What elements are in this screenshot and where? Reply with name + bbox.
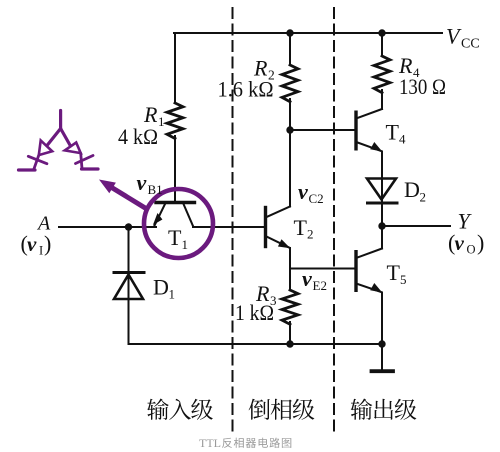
wire output Y	[382, 225, 450, 227]
annotation circle around T1	[144, 189, 213, 258]
transistor T1 base bar	[156, 201, 195, 204]
svg-text:vB1: vB1	[137, 170, 163, 197]
node R2 T2 collector T4 base junction	[286, 126, 293, 133]
transistor T5 collector	[358, 249, 383, 258]
diode D2	[367, 179, 397, 204]
annotation multi-emitter diode sketch	[19, 111, 99, 171]
wire VCC rail	[174, 32, 442, 34]
transistor T5 base bar	[354, 252, 357, 291]
svg-text:T4: T4	[386, 120, 407, 147]
svg-text:D2: D2	[404, 177, 426, 205]
label stage output 输出级	[351, 399, 417, 420]
svg-text:D1: D1	[153, 275, 175, 302]
transistor T5 emitter	[358, 283, 383, 293]
svg-text:4 kΩ: 4 kΩ	[118, 124, 158, 149]
ground	[372, 344, 394, 371]
wire VCC to R1	[174, 33, 176, 103]
node input junction	[125, 223, 132, 230]
annotation arrow to T1 base	[99, 180, 146, 209]
svg-text:T2: T2	[294, 215, 314, 242]
svg-text:T1: T1	[168, 225, 188, 252]
wire vE2 node to T5 base	[290, 268, 355, 270]
transistor T4 base bar	[354, 112, 357, 149]
resistor R4	[374, 56, 390, 93]
resistor R1	[167, 103, 183, 139]
svg-text:1 kΩ: 1 kΩ	[235, 300, 274, 325]
svg-text:(vI): (vI)	[21, 231, 52, 258]
wire VCC to R4	[381, 33, 383, 56]
node VCC-R2 junction	[286, 29, 293, 36]
wire T4 emitter to D2	[381, 152, 383, 227]
wire input A	[59, 226, 156, 228]
wire output node to T5 collector	[381, 226, 383, 249]
transistor T2 collector	[267, 207, 291, 218]
transistor T1 emitter	[153, 204, 165, 226]
svg-text:(vO): (vO)	[448, 230, 484, 257]
dashed stage boundary line 2	[333, 8, 335, 433]
svg-text:1.6 kΩ: 1.6 kΩ	[218, 77, 274, 102]
svg-text:VCC: VCC	[446, 24, 480, 52]
dashed stage boundary line 1	[232, 8, 234, 433]
wire R1 to T1 base	[174, 136, 176, 202]
svg-text:T5: T5	[387, 260, 407, 287]
wire T2 emitter down	[289, 248, 291, 269]
transistor T1 collector	[184, 204, 194, 226]
wire bottom rail	[129, 343, 383, 345]
wire R4 to T4 collector	[381, 90, 383, 109]
svg-text:vE2: vE2	[302, 266, 327, 293]
wire VCC to R2	[289, 33, 291, 65]
transistor T2 base bar	[264, 208, 267, 247]
label stage input 输入级	[147, 399, 213, 420]
wire T5 emitter to bottom rail	[381, 293, 383, 345]
resistor R3	[282, 290, 298, 324]
transistor T4 emitter	[358, 142, 383, 152]
wire node to T2 collector	[289, 130, 291, 207]
label stage inverter 倒相级	[249, 399, 315, 420]
node VCC-R4 junction	[378, 29, 385, 36]
wire node to T4 base	[290, 129, 355, 131]
wire input node to D1	[128, 227, 130, 344]
node R3 bottom junction	[286, 340, 293, 347]
wire vE2 to R3	[289, 269, 291, 291]
node output Y junction	[378, 222, 385, 229]
svg-text:130 Ω: 130 Ω	[399, 74, 446, 99]
transistor T2 emitter	[267, 237, 291, 249]
caption TTL inverter circuit diagram	[199, 436, 291, 450]
node T5 emitter junction	[378, 340, 385, 347]
svg-text:TTL: TTL	[199, 436, 221, 450]
svg-text:Y: Y	[458, 209, 473, 234]
transistor T4 collector	[358, 109, 383, 118]
svg-text:vC2: vC2	[298, 179, 324, 206]
resistor R2	[282, 65, 298, 102]
wire R3 to bottom rail	[289, 322, 291, 344]
wire T1 collector to T2 base	[193, 226, 264, 228]
wire R2 to node	[289, 99, 291, 130]
diode D1	[114, 273, 144, 300]
